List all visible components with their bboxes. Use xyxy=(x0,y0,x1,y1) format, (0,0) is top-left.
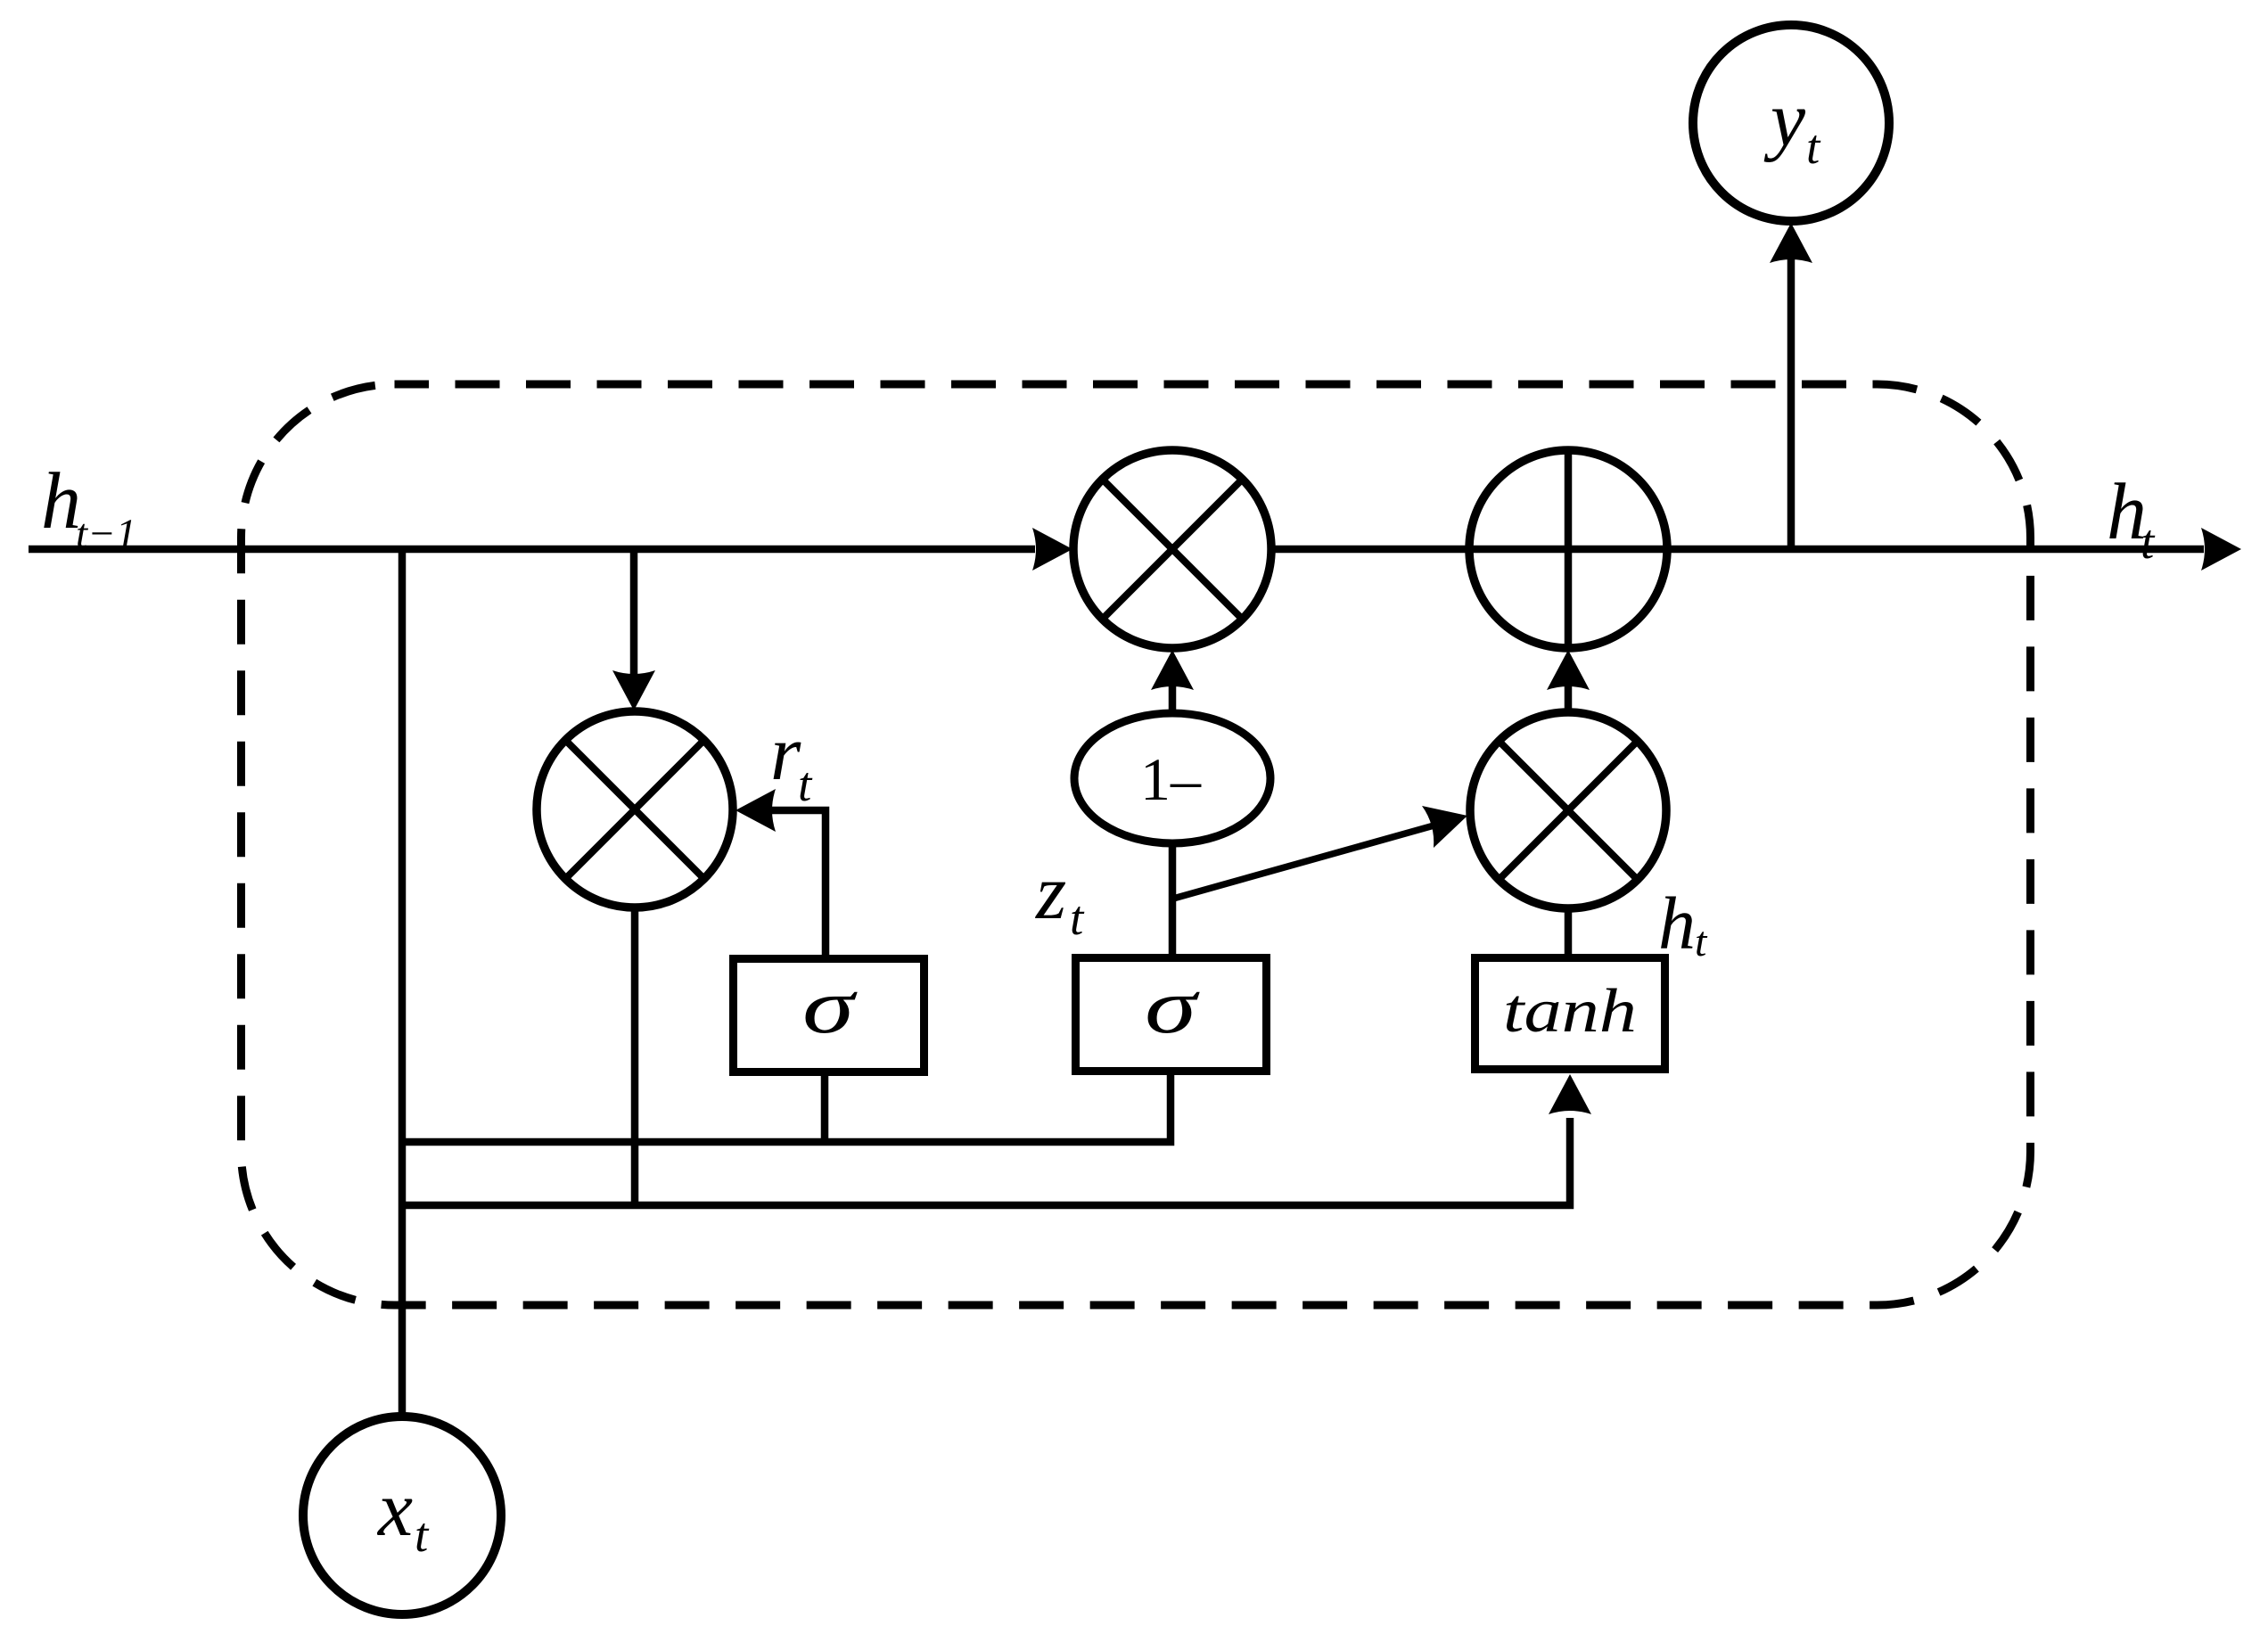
arrowhead into U1 bottom xyxy=(1151,650,1194,690)
arrowhead diagonal into U3 xyxy=(1422,806,1467,848)
svg-text:z: z xyxy=(1035,850,1066,936)
svg-text:t: t xyxy=(415,1507,430,1562)
wire tanh box up into U3 xyxy=(1565,908,1573,959)
svg-text:y: y xyxy=(1763,77,1806,163)
svg-text:σ: σ xyxy=(1145,964,1201,1050)
svg-text:t−1: t−1 xyxy=(76,511,136,557)
sigma box B2 xyxy=(1076,958,1267,1072)
adder U4 on h line xyxy=(1469,450,1667,648)
wire B1 stem down to bus1 xyxy=(821,1069,829,1142)
wire down into multiplier U2 xyxy=(630,549,638,674)
wire bus2 from x(t) branch to tanh bottom xyxy=(404,1118,1570,1205)
arrowhead into tanh bottom xyxy=(1549,1074,1591,1114)
wire U3 up into adder U4 xyxy=(1565,686,1573,712)
svg-text:1–: 1– xyxy=(1140,745,1202,813)
wire ellipse up into U1 xyxy=(1169,686,1177,713)
svg-text:t: t xyxy=(2141,514,2156,569)
svg-text:r: r xyxy=(770,710,801,797)
arrowhead into y(t) xyxy=(1770,223,1812,263)
svg-text:t: t xyxy=(1070,891,1085,945)
svg-text:t: t xyxy=(1806,119,1821,174)
sigma box B1 xyxy=(734,959,924,1072)
arrowhead into U4 bottom xyxy=(1547,650,1590,690)
tanh box B3 xyxy=(1475,958,1665,1070)
arrowhead h(t) output xyxy=(2201,528,2241,571)
wire z(t) stem from B2 up to 1-minus ellipse xyxy=(1169,843,1177,959)
wire r(t) elbow into U2 xyxy=(772,810,826,960)
arrowhead into multiplier U1 xyxy=(1032,528,1072,571)
wire branch down to x(t) xyxy=(399,549,407,1417)
node x(t) circle xyxy=(303,1417,501,1614)
multiplier U1 on h line xyxy=(1073,450,1271,648)
wire up to y(t) xyxy=(1787,259,1795,549)
svg-text:tanh: tanh xyxy=(1503,977,1637,1046)
multiplier U2 lower left xyxy=(537,711,733,907)
wire main line right segment to output xyxy=(1270,546,2204,554)
GRU cell dashed boundary xyxy=(242,384,2031,1305)
node y(t) circle xyxy=(1693,25,1889,221)
wire h(t-1) main line left segment xyxy=(29,546,1035,554)
svg-text:h: h xyxy=(1658,883,1696,965)
svg-text:σ: σ xyxy=(802,964,859,1050)
arrowhead into multiplier U2 xyxy=(612,670,655,710)
multiplier U3 right xyxy=(1470,712,1666,908)
wire diagonal z(t) to U3 xyxy=(1173,825,1437,899)
svg-text:x: x xyxy=(376,1466,413,1553)
wire U2 stem down to bus2 xyxy=(631,907,639,1205)
arrowhead r(t) into U2 xyxy=(735,789,776,832)
svg-text:t: t xyxy=(798,757,813,811)
node 1-minus ellipse xyxy=(1074,713,1270,843)
wire bus1 from x(t) branch to sigma box B2 xyxy=(404,1071,1171,1142)
svg-text:t: t xyxy=(1695,918,1708,965)
